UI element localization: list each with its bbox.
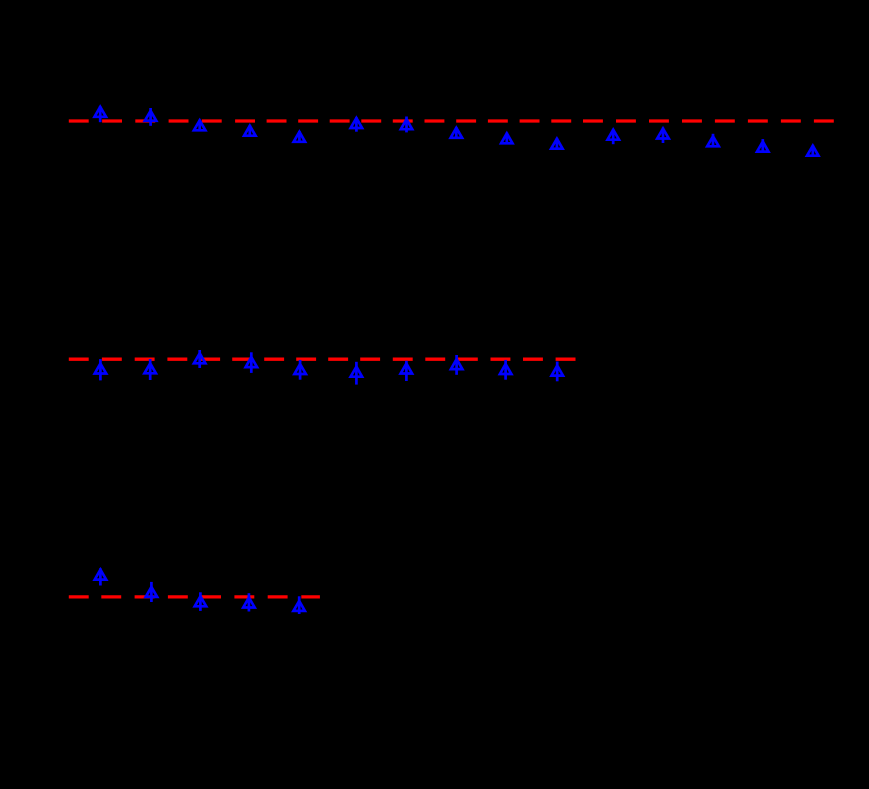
data point row1-8 [451,127,463,139]
data point row1-4 [244,125,256,137]
data point row2-3 [194,350,206,368]
data point row1-11 [608,129,620,144]
data point row2-7 [401,361,413,381]
dashed baseline 2 [69,358,576,361]
data point row1-12 [657,128,669,143]
data point row2-10 [552,362,564,382]
data point row1-9 [501,133,512,145]
data point row3-5 [293,596,305,614]
data point row2-8 [451,355,463,375]
data point row2-6 [351,362,363,385]
data point row1-14 [757,139,769,153]
data point row3-3 [195,592,207,611]
data point row1-15 [807,145,819,157]
data point row2-9 [500,360,512,380]
data point row3-4 [243,593,255,611]
data point row1-10 [551,138,563,150]
data point row1-5 [294,131,306,143]
data point row3-2 [146,582,158,602]
dashed baseline 1 [69,119,834,122]
data point row1-3 [194,120,206,132]
dashed baseline 3 [69,595,320,598]
data point row2-4 [246,352,258,373]
data point row3-1 [95,568,107,585]
data point row2-5 [294,360,306,380]
data point row1-2 [145,108,157,126]
data point row2-1 [95,359,107,380]
data point row1-7 [401,117,412,133]
data point row2-2 [144,359,156,380]
data point row1-6 [351,117,363,132]
data point row1-1 [95,106,107,122]
data point row1-13 [707,134,719,148]
